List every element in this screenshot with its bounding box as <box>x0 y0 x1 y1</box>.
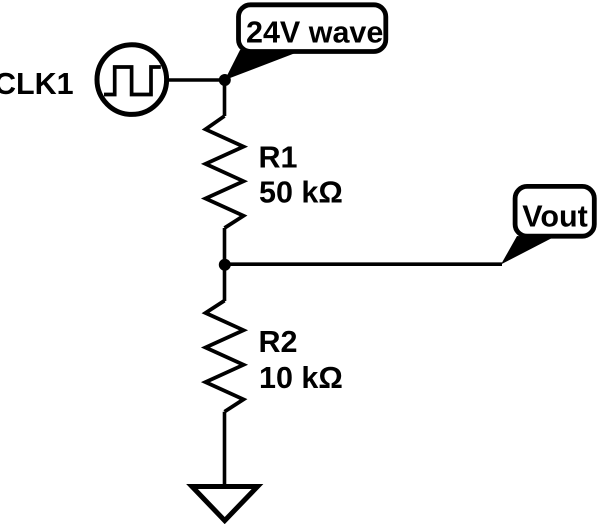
resistor R2 <box>206 301 244 412</box>
svg-text:24V wave: 24V wave <box>246 16 383 50</box>
svg-text:Vout: Vout <box>522 200 588 234</box>
resistor R1 <box>206 116 244 228</box>
node top junction <box>219 74 231 86</box>
callout tail to node A <box>225 50 298 80</box>
wire node down to R1 <box>223 80 227 116</box>
wire clock to node <box>169 78 225 82</box>
svg-text:50 kΩ: 50 kΩ <box>259 176 343 210</box>
svg-text:R1: R1 <box>259 141 298 175</box>
wire R1 to node <box>223 228 227 301</box>
svg-text:10 kΩ: 10 kΩ <box>259 361 343 395</box>
callout 24V wave <box>225 5 386 80</box>
wire node to Vout <box>225 262 503 266</box>
clock source CLK1 <box>97 45 167 115</box>
callout box <box>515 186 594 236</box>
callout tail to net Vout <box>501 236 552 264</box>
svg-text:R2: R2 <box>259 325 298 359</box>
ground <box>192 487 258 521</box>
svg-text:CLK1: CLK1 <box>0 67 74 101</box>
clock square-wave glyph <box>104 67 161 95</box>
clock circle body <box>97 45 167 115</box>
callout box <box>239 5 386 52</box>
callout Vout <box>501 186 594 264</box>
wire R2 to ground <box>223 412 227 487</box>
node mid junction <box>219 259 231 271</box>
